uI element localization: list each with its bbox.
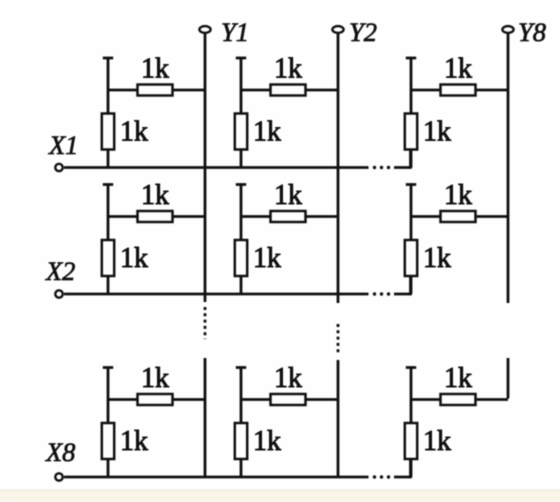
wire: stub vertical at crosspoint X2-Y1 xyxy=(107,186,110,242)
wire: Y1 column lower segment xyxy=(204,358,207,477)
resistor 1k (series, horizontal) at crosspoint X1-Y1 xyxy=(138,85,173,96)
svg-text:X2: X2 xyxy=(45,256,75,286)
svg-text:1k: 1k xyxy=(444,180,472,211)
wire: Y2 column lower segment xyxy=(337,360,340,476)
wire: X1-Y2 shunt resistor to row X1 xyxy=(240,150,243,168)
resistor 1k (shunt, vertical) at crosspoint X2-Y2 xyxy=(235,240,247,276)
svg-text:1k: 1k xyxy=(274,180,302,211)
wire: stub vertical at crosspoint X8-Y1 xyxy=(107,369,110,425)
wire: stub vertical at crosspoint X2-Y8 xyxy=(410,186,413,242)
terminal node Y2 xyxy=(332,26,343,33)
svg-text:1k: 1k xyxy=(141,54,169,85)
wire: horizontal branch X8-Y8 to column Y8 xyxy=(411,398,508,401)
wire: X2 row riser to Y8 crosspoint resistor xyxy=(409,277,412,295)
resistor 1k (shunt, vertical) at crosspoint X2-Y8 xyxy=(405,240,417,276)
wire: horizontal branch X1-Y1 to column Y1 xyxy=(108,89,205,92)
wire: Y8 column upper segment xyxy=(507,34,510,303)
terminal node X1 xyxy=(55,164,62,171)
svg-text:Y8: Y8 xyxy=(518,17,546,47)
wire: Y8 column lower segment (ends at X8 crosspoint elbow) xyxy=(507,358,510,399)
resistor 1k (shunt, vertical) at crosspoint X2-Y1 xyxy=(102,240,114,276)
wire: X1-Y8 shunt resistor to row X1 xyxy=(410,150,413,168)
svg-text:1k: 1k xyxy=(423,117,451,148)
wire: Y1 column upper segment xyxy=(204,34,207,302)
node: open stub tick at crosspoint X2-Y8 xyxy=(406,183,416,186)
svg-text:1k: 1k xyxy=(253,426,281,457)
resistor 1k (series, horizontal) at crosspoint X2-Y8 xyxy=(441,211,476,222)
wire: horizontal branch X2-Y2 to column Y2 xyxy=(241,215,338,218)
resistor 1k (shunt, vertical) at crosspoint X8-Y1 xyxy=(102,423,114,459)
svg-text:1k: 1k xyxy=(120,243,148,274)
wire: horizontal branch X8-Y1 to column Y1 xyxy=(108,398,205,401)
svg-text:1k: 1k xyxy=(120,426,148,457)
wire: stub vertical at crosspoint X8-Y2 xyxy=(240,369,243,425)
svg-text:1k: 1k xyxy=(141,363,169,394)
node: open stub tick at crosspoint X2-Y2 xyxy=(236,183,246,186)
wire: Y1 column dotted continuation xyxy=(204,307,207,339)
svg-text:1k: 1k xyxy=(444,54,472,85)
resistor 1k (shunt, vertical) at crosspoint X1-Y1 xyxy=(102,114,114,150)
wire: Y2 column dotted continuation xyxy=(337,324,340,354)
wire: stub vertical at crosspoint X1-Y2 xyxy=(240,59,243,115)
wire: X1 row main segment xyxy=(64,166,369,169)
terminal node X2 xyxy=(55,290,62,297)
svg-text:1k: 1k xyxy=(141,180,169,211)
resistor 1k (series, horizontal) at crosspoint X2-Y1 xyxy=(138,211,173,222)
wire: X1 row dotted continuation (ellipsis) xyxy=(373,166,390,169)
svg-text:Y1: Y1 xyxy=(221,17,249,47)
wire: X8-Y1 shunt resistor to row X8 xyxy=(107,459,110,477)
wire: X8-Y2 shunt resistor to row X8 xyxy=(240,459,243,477)
wire: Y2 column upper segment xyxy=(337,34,340,303)
wire: X2 row end segment to Y8 crosspoint xyxy=(394,293,411,296)
wire: stub vertical at crosspoint X1-Y1 xyxy=(107,59,110,115)
wire: horizontal branch X1-Y8 to column Y8 xyxy=(411,89,508,92)
wire: X8 row riser to Y8 crosspoint resistor xyxy=(409,460,412,478)
terminal node Y8 xyxy=(502,26,513,33)
svg-text:1k: 1k xyxy=(274,363,302,394)
terminal node X8 xyxy=(55,473,62,480)
node: open stub tick at crosspoint X8-Y2 xyxy=(236,366,246,369)
wire: stub vertical at crosspoint X2-Y2 xyxy=(240,186,243,242)
wire: X8 row end segment to Y8 crosspoint xyxy=(394,476,411,479)
wire: stub vertical at crosspoint X1-Y8 xyxy=(410,59,413,115)
wire: X2-Y2 shunt resistor to row X2 xyxy=(240,276,243,294)
svg-text:1k: 1k xyxy=(253,117,281,148)
node: open stub tick at crosspoint X1-Y2 xyxy=(236,57,246,60)
terminal node Y1 xyxy=(199,26,210,33)
node: open stub tick at crosspoint X8-Y8 xyxy=(406,366,416,369)
svg-text:1k: 1k xyxy=(274,54,302,85)
svg-text:1k: 1k xyxy=(120,117,148,148)
resistor 1k (series, horizontal) at crosspoint X1-Y8 xyxy=(441,85,476,96)
wire: X2 row dotted continuation (ellipsis) xyxy=(373,292,390,295)
resistor 1k (series, horizontal) at crosspoint X8-Y2 xyxy=(271,394,306,405)
svg-text:X8: X8 xyxy=(45,437,75,467)
wire: X1-Y1 shunt resistor to row X1 xyxy=(107,150,110,168)
wire: horizontal branch X1-Y2 to column Y2 xyxy=(241,89,338,92)
resistor 1k (series, horizontal) at crosspoint X1-Y2 xyxy=(271,85,306,96)
svg-text:Y2: Y2 xyxy=(349,17,377,47)
svg-text:1k: 1k xyxy=(253,243,281,274)
node: open stub tick at crosspoint X1-Y1 xyxy=(103,57,113,60)
svg-text:X1: X1 xyxy=(48,130,78,160)
wire: X2-Y8 shunt resistor to row X2 xyxy=(410,276,413,294)
wire: X1 row end segment to Y8 crosspoint xyxy=(394,166,411,169)
resistor 1k (shunt, vertical) at crosspoint X8-Y2 xyxy=(235,423,247,459)
svg-text:1k: 1k xyxy=(423,243,451,274)
wire: X8 row main segment xyxy=(64,476,369,479)
svg-text:1k: 1k xyxy=(423,426,451,457)
svg-text:1k: 1k xyxy=(444,363,472,394)
node: open stub tick at crosspoint X1-Y8 xyxy=(406,57,416,60)
resistor 1k (series, horizontal) at crosspoint X8-Y8 xyxy=(441,394,476,405)
resistor 1k (shunt, vertical) at crosspoint X1-Y8 xyxy=(405,114,417,150)
resistor 1k (shunt, vertical) at crosspoint X8-Y8 xyxy=(405,423,417,459)
node: open stub tick at crosspoint X2-Y1 xyxy=(103,183,113,186)
wire: X8 row dotted continuation (ellipsis) xyxy=(373,475,390,478)
wire: X1 row riser to Y8 crosspoint resistor xyxy=(409,151,412,169)
wire: X2 row main segment xyxy=(64,293,369,296)
resistor 1k (series, horizontal) at crosspoint X2-Y2 xyxy=(271,211,306,222)
resistor 1k (shunt, vertical) at crosspoint X1-Y2 xyxy=(235,114,247,150)
wire: horizontal branch X2-Y8 to column Y8 xyxy=(411,215,508,218)
resistor 1k (series, horizontal) at crosspoint X8-Y1 xyxy=(138,394,173,405)
wire: X8-Y8 shunt resistor to row X8 xyxy=(410,459,413,477)
wire: X2-Y1 shunt resistor to row X2 xyxy=(107,276,110,294)
wire: horizontal branch X8-Y2 to column Y2 xyxy=(241,398,338,401)
node: open stub tick at crosspoint X8-Y1 xyxy=(103,366,113,369)
wire: horizontal branch X2-Y1 to column Y1 xyxy=(108,215,205,218)
wire: stub vertical at crosspoint X8-Y8 xyxy=(410,369,413,425)
